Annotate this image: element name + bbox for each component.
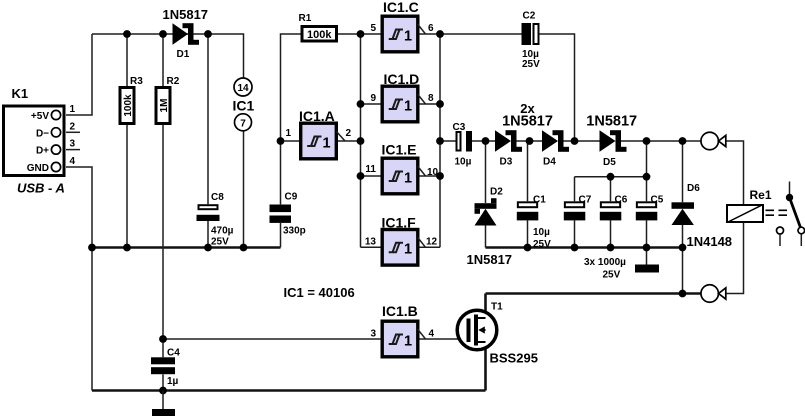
relay Re1: [727, 188, 772, 223]
ground bar under C4: [152, 409, 175, 416]
wire IC1.A input: [281, 140, 301, 142]
wire IC1.F input: [361, 246, 382, 248]
wire IC1.C output: [420, 33, 441, 35]
wire T1 drain/source vertical: [484, 294, 487, 391]
ground bar under C5: [635, 265, 659, 273]
node ground rail R3: [123, 244, 131, 252]
wire R1 left / C9 branch: [281, 34, 301, 248]
resistor R2: [156, 88, 170, 124]
node minus rail C5: [643, 244, 651, 252]
svg-text:+5V: +5V: [31, 111, 49, 122]
svg-text:10: 10: [427, 167, 439, 178]
wire C5 to ground: [646, 248, 648, 265]
wire C7 stubs: [574, 177, 576, 248]
svg-text:R2: R2: [167, 76, 180, 87]
wire D2 branch vertical: [485, 141, 487, 248]
wire R3 branch: [126, 34, 128, 248]
svg-text:IC1.F: IC1.F: [382, 214, 417, 230]
svg-text:1µ: 1µ: [167, 376, 179, 387]
svg-text:1N5817: 1N5817: [163, 7, 209, 22]
diode D4: [542, 130, 558, 152]
svg-text:GND: GND: [27, 163, 49, 174]
svg-text:3x 1000µ: 3x 1000µ: [584, 257, 626, 268]
svg-text:3: 3: [70, 139, 76, 150]
node output bus pin10: [436, 172, 444, 180]
wire IC1.C input: [361, 33, 382, 35]
node minus rail C1: [524, 244, 532, 252]
svg-text:1N5817: 1N5817: [586, 114, 637, 130]
output terminal bottom: [701, 285, 719, 303]
svg-text:2: 2: [346, 128, 352, 139]
wire IC1.B input from C4 node: [163, 338, 381, 340]
svg-text:1: 1: [70, 104, 76, 115]
svg-text:1: 1: [404, 170, 412, 186]
wire output bus vertical: [439, 34, 441, 247]
node input bus top: [357, 30, 365, 38]
bottom rail: [92, 389, 486, 392]
node rail D6 top: [679, 137, 687, 145]
capacitor C2: [522, 23, 532, 45]
node minus rail D6: [679, 244, 687, 252]
svg-text:5: 5: [370, 23, 376, 34]
resistor R3: [120, 88, 134, 124]
capacitor C5: [637, 202, 656, 207]
node output bus pin8: [436, 100, 444, 108]
IC1 pin 14 circle: [234, 78, 252, 96]
svg-text:3: 3: [370, 329, 376, 340]
transistor T1 BSS295: [457, 302, 538, 366]
svg-text:8: 8: [428, 93, 434, 104]
wire C8 branch: [207, 34, 209, 248]
wire IC1.F output: [420, 246, 441, 248]
node IC1.A output: [357, 137, 365, 145]
svg-text:2: 2: [70, 121, 76, 132]
wire cap top link line: [575, 141, 647, 177]
capacitor C4: [151, 357, 175, 364]
svg-text:C6: C6: [615, 195, 628, 206]
node cap link C6: [607, 173, 615, 181]
wire IC1.E input: [361, 175, 382, 177]
svg-text:D−: D−: [36, 128, 49, 139]
svg-text:D6: D6: [687, 183, 700, 194]
svg-text:D3: D3: [500, 157, 513, 168]
op-amp gate IC1.A: [285, 108, 351, 159]
node cap link C5: [643, 173, 651, 181]
wire C4 ground stub: [162, 391, 164, 410]
svg-text:4: 4: [70, 156, 76, 167]
diode D5: [600, 130, 616, 152]
svg-text:IC1 = 40106: IC1 = 40106: [284, 285, 355, 300]
capacitor C1: [518, 202, 537, 207]
svg-text:12: 12: [426, 236, 438, 247]
svg-text:C5: C5: [651, 195, 664, 206]
svg-text:R3: R3: [130, 76, 143, 87]
node minus rail C7: [571, 244, 579, 252]
K1 pin 1 circle: [51, 110, 60, 119]
node ground rail C8: [204, 244, 212, 252]
svg-text:13: 13: [365, 236, 377, 247]
node input bus pin9: [357, 100, 365, 108]
wire R1 right to input bus: [338, 33, 361, 35]
svg-text:T1: T1: [491, 302, 503, 313]
wire IC1.D input: [361, 103, 382, 105]
wire D6 branch vertical: [682, 141, 684, 294]
wire C5 stubs: [646, 177, 648, 248]
svg-text:C8: C8: [211, 192, 224, 203]
node ground rail left: [88, 244, 96, 252]
svg-text:25V: 25V: [603, 269, 621, 280]
node C4 / IC1.B input: [159, 335, 167, 343]
svg-text:1: 1: [404, 28, 412, 44]
svg-text:IC1.C: IC1.C: [383, 0, 419, 15]
svg-text:14: 14: [237, 83, 249, 94]
svg-text:D1: D1: [177, 49, 190, 60]
wire +5V from K1 pin1 up to top rail: [66, 34, 92, 115]
node top rail C8/D1: [204, 30, 212, 38]
switch contact left: [777, 227, 784, 234]
svg-text:C7: C7: [579, 195, 592, 206]
node input bus pin11: [357, 172, 365, 180]
svg-text:1N5817: 1N5817: [502, 114, 553, 130]
minus rail (charge pump): [486, 246, 683, 249]
svg-text:9: 9: [370, 93, 376, 104]
node D5/C5 riser: [643, 137, 651, 145]
capacitor C9: [270, 205, 292, 213]
op-amp gate IC1.B: [370, 303, 434, 357]
wire C1 branch: [527, 141, 529, 248]
svg-text:C1: C1: [533, 195, 546, 206]
connector K1 box: [4, 106, 65, 176]
ground rail (left): [92, 246, 281, 249]
svg-text:100k: 100k: [307, 29, 332, 41]
svg-text:D2: D2: [490, 187, 503, 198]
wire input bus vertical: [360, 34, 362, 247]
svg-text:K1: K1: [12, 86, 29, 101]
svg-text:IC1.D: IC1.D: [384, 71, 420, 87]
capacitor C6: [601, 202, 620, 207]
wire IC1 pin7 down: [243, 131, 245, 248]
svg-text:D4: D4: [543, 157, 556, 168]
node output bus pin6: [436, 30, 444, 38]
wire K1 pin3 stub: [66, 149, 80, 151]
svg-text:IC1.E: IC1.E: [382, 141, 417, 157]
op-amp gate IC1.C: [370, 0, 434, 52]
diode D3: [495, 130, 511, 152]
diode D6 1N4148: [672, 202, 695, 209]
svg-text:BSS295: BSS295: [490, 351, 538, 366]
wire K1 pin2 stub: [66, 131, 80, 133]
switch lever: [790, 198, 802, 230]
switch pivot dot: [786, 194, 793, 201]
svg-text:C9: C9: [285, 192, 298, 203]
svg-text:1N5817: 1N5817: [467, 252, 513, 267]
svg-text:Re1: Re1: [750, 188, 772, 202]
svg-text:C3: C3: [453, 122, 466, 133]
svg-text:6: 6: [428, 23, 434, 34]
svg-text:100k: 100k: [123, 94, 134, 117]
output terminal top: [701, 132, 719, 150]
wire C6 stubs: [610, 177, 612, 248]
svg-text:25V: 25V: [211, 236, 229, 247]
K1 pin 2 circle: [51, 128, 60, 137]
svg-text:11: 11: [365, 164, 376, 175]
svg-text:D5: D5: [603, 157, 616, 168]
wire IC1.B output to gate: [420, 338, 467, 340]
svg-text:1N4148: 1N4148: [687, 234, 733, 249]
node D4/D5/C2: [571, 137, 579, 145]
wire top terminal to relay: [726, 141, 744, 204]
svg-text:1: 1: [285, 128, 291, 139]
op-amp gate IC1.E: [365, 141, 438, 193]
wire IC1.E output: [420, 175, 441, 177]
capacitor C3: [457, 132, 461, 151]
wire IC1.D output: [420, 103, 441, 105]
node ground rail IC1 pin7: [240, 244, 248, 252]
svg-text:1: 1: [404, 98, 412, 114]
wire K1 pin4 GND down to ground rail and bottom rail: [66, 167, 92, 391]
wire IC1.A output: [338, 140, 361, 142]
relay mechanical link dashes: [766, 210, 790, 215]
wire T1 drain row: [486, 292, 702, 295]
svg-text:10µ: 10µ: [455, 156, 472, 167]
op-amp gate IC1.D: [370, 71, 434, 122]
node drain row D6: [679, 290, 687, 298]
svg-text:25V: 25V: [522, 59, 540, 70]
K1 pin 4 circle: [51, 162, 60, 171]
svg-text:25V: 25V: [533, 239, 551, 250]
svg-text:1: 1: [323, 135, 331, 151]
wire C2 to corner down to diode row: [540, 34, 575, 141]
node top rail R2/D1: [159, 30, 167, 38]
svg-text:IC1.B: IC1.B: [382, 303, 418, 319]
node top rail R3: [123, 30, 131, 38]
diode D2 (schottky vertical): [475, 203, 497, 209]
svg-text:330p: 330p: [283, 225, 306, 236]
svg-text:10µ: 10µ: [533, 227, 550, 238]
wire top row to C2: [440, 33, 522, 35]
svg-text:R1: R1: [299, 13, 312, 24]
IC1 pin 7 circle: [235, 114, 252, 131]
svg-text:1: 1: [404, 333, 412, 349]
svg-text:4: 4: [429, 329, 435, 340]
node D3/D4/C1: [526, 137, 534, 145]
node bottom rail C4: [159, 387, 167, 395]
op-amp gate IC1.F: [365, 214, 438, 265]
svg-text:470µ: 470µ: [211, 225, 234, 236]
svg-text:C4: C4: [167, 348, 180, 359]
svg-text:1: 1: [404, 242, 412, 258]
switch contact right: [798, 227, 805, 234]
svg-text:7: 7: [240, 118, 246, 129]
node minus rail C6: [607, 244, 615, 252]
wire C3 row: [440, 140, 701, 142]
svg-text:1M: 1M: [159, 99, 170, 113]
node output bus C3: [436, 137, 444, 145]
svg-text:IC1.A: IC1.A: [299, 108, 335, 124]
switch pole stub: [789, 182, 791, 196]
capacitor C7: [565, 202, 584, 207]
diode D1 1N5817: [173, 23, 189, 45]
svg-text:D+: D+: [36, 146, 49, 157]
node IC1.A input: [277, 137, 285, 145]
wire relay bottom to bottom terminal: [726, 223, 744, 294]
wire R2 / C4 branch: [162, 34, 164, 391]
wire top +5V rail: [92, 34, 244, 78]
resistor R1: [302, 27, 337, 42]
svg-text:USB - A: USB - A: [17, 181, 65, 196]
svg-text:C2: C2: [523, 11, 536, 22]
capacitor C8: [199, 205, 218, 209]
node C3/D3/D2: [482, 137, 490, 145]
K1 pin 3 circle: [51, 145, 60, 154]
svg-text:IC1: IC1: [233, 98, 255, 114]
